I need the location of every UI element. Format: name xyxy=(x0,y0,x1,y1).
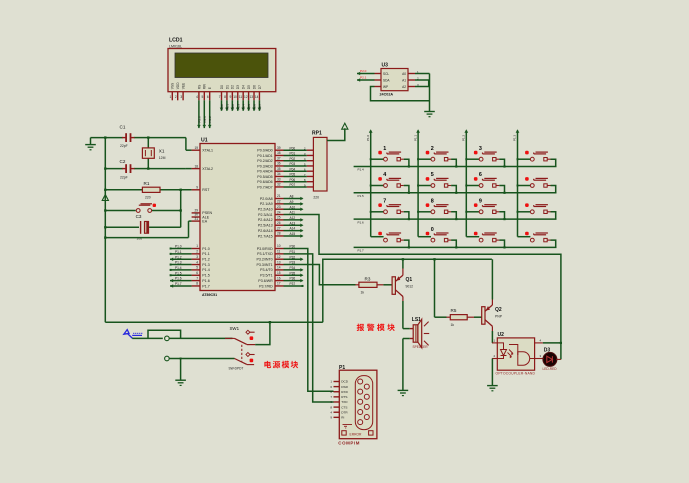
keypad column wire P1.3 xyxy=(517,131,519,237)
svg-text:P2.3/A11: P2.3/A11 xyxy=(258,213,273,217)
svg-text:P02: P02 xyxy=(231,104,235,110)
svg-text:1: 1 xyxy=(170,95,172,99)
svg-text:7: 7 xyxy=(219,95,221,99)
svg-text:34: 34 xyxy=(277,172,281,176)
svg-text:P1.5: P1.5 xyxy=(202,274,209,278)
resistor R5 xyxy=(434,259,436,317)
battery probe (blue) xyxy=(124,330,129,335)
key button r1c2 '2' xyxy=(418,158,431,160)
svg-text:SW-DPDT: SW-DPDT xyxy=(229,367,244,371)
svg-text:P1.0: P1.0 xyxy=(175,245,182,249)
U1 right pins P2.0-P2.7 net arrows xyxy=(275,198,284,200)
svg-text:26: 26 xyxy=(277,221,281,225)
svg-text:P3.2/INT0: P3.2/INT0 xyxy=(257,258,273,262)
svg-text:5: 5 xyxy=(431,172,434,178)
svg-text:14: 14 xyxy=(255,95,259,99)
svg-text:EA: EA xyxy=(202,219,207,223)
svg-text:P01: P01 xyxy=(225,104,229,110)
capacitor C2 xyxy=(122,168,126,170)
svg-text:P03: P03 xyxy=(236,104,240,110)
wire P2.3 to optocoupler line xyxy=(284,215,561,360)
wire Q1 emitter to speaker pin1 xyxy=(402,301,404,329)
svg-text:P0.6/AD6: P0.6/AD6 xyxy=(257,180,272,184)
svg-text:8: 8 xyxy=(224,95,226,99)
svg-text:LED-RED: LED-RED xyxy=(543,367,558,371)
svg-text:220: 220 xyxy=(313,196,319,200)
svg-text:23: 23 xyxy=(277,205,281,209)
wire P3.3 to R3 xyxy=(284,265,356,285)
svg-text:P1.3: P1.3 xyxy=(175,261,182,265)
svg-text:U2: U2 xyxy=(498,332,505,338)
svg-text:9: 9 xyxy=(196,186,198,190)
svg-text:D1: D1 xyxy=(225,85,229,89)
svg-text:A1: A1 xyxy=(402,78,406,82)
svg-text:8: 8 xyxy=(431,199,434,205)
ground (speaker) xyxy=(398,389,409,391)
svg-text:8: 8 xyxy=(196,282,198,286)
RP1 power arrow xyxy=(327,128,345,140)
svg-text:P2.7/A15: P2.7/A15 xyxy=(258,234,273,238)
key button r2c3 '6' xyxy=(466,185,479,187)
svg-text:P0.5/AD5: P0.5/AD5 xyxy=(257,175,272,179)
ground (U3) xyxy=(424,111,435,113)
svg-text:17: 17 xyxy=(277,282,281,286)
key button r4c1 xyxy=(384,238,388,242)
svg-text:220: 220 xyxy=(145,196,151,200)
U1 left pins PSEN ALE EA xyxy=(192,212,200,214)
crystal X1 xyxy=(147,138,149,148)
svg-text:P2.2/A10: P2.2/A10 xyxy=(258,208,273,212)
svg-text:A8: A8 xyxy=(290,195,294,199)
svg-text:P1.4: P1.4 xyxy=(202,268,209,272)
svg-text:A12: A12 xyxy=(290,216,296,220)
svg-text:6: 6 xyxy=(479,172,482,178)
svg-text:D4: D4 xyxy=(242,85,246,89)
wire lower circle / ground branch xyxy=(169,358,234,360)
svg-text:P2.2: P2.2 xyxy=(208,116,212,123)
svg-text:24C02A: 24C02A xyxy=(380,93,394,97)
U1 left pins XTAL1 XTAL2 RST xyxy=(192,149,200,151)
svg-text:7: 7 xyxy=(383,199,386,205)
svg-text:1: 1 xyxy=(383,146,386,152)
svg-text:C1: C1 xyxy=(120,125,126,130)
svg-text:15: 15 xyxy=(277,271,281,275)
svg-text:P2.0: P2.0 xyxy=(197,116,201,123)
svg-text:2: 2 xyxy=(175,95,177,99)
svg-text:12M: 12M xyxy=(159,156,166,160)
keypad row wire P1.5 xyxy=(354,192,557,194)
transistor Q2 (PNP) xyxy=(482,307,485,325)
svg-text:6: 6 xyxy=(207,95,209,99)
svg-text:SCL: SCL xyxy=(383,72,389,76)
svg-text:12: 12 xyxy=(244,95,248,99)
wire battery to switch (hop) xyxy=(132,337,163,339)
svg-text:27: 27 xyxy=(277,226,281,230)
svg-text:19: 19 xyxy=(194,146,198,150)
svg-text:A14: A14 xyxy=(290,227,296,231)
svg-text:A9: A9 xyxy=(290,200,294,204)
svg-text:18: 18 xyxy=(194,164,198,168)
svg-text:P1.7: P1.7 xyxy=(202,284,209,288)
svg-text:P00: P00 xyxy=(220,104,224,110)
svg-text:U3: U3 xyxy=(382,63,389,69)
svg-text:32: 32 xyxy=(277,183,281,187)
svg-text:P2.0/A8: P2.0/A8 xyxy=(260,197,273,201)
svg-text:TXD: TXD xyxy=(341,400,348,404)
reset button red indicator xyxy=(153,204,156,207)
wire P3.0 to COMPIM RXD xyxy=(284,249,334,392)
LCD data wires D0-D7 (net arrows) xyxy=(221,100,223,111)
svg-text:P1.0: P1.0 xyxy=(366,134,370,141)
svg-text:P3.7/RD: P3.7/RD xyxy=(259,284,273,288)
svg-text:0: 0 xyxy=(431,227,434,233)
svg-text:WP: WP xyxy=(383,85,388,89)
svg-text:P3.6/WR: P3.6/WR xyxy=(258,279,273,283)
svg-text:P3.4/T0: P3.4/T0 xyxy=(260,268,273,272)
svg-text:DCD: DCD xyxy=(341,380,348,384)
svg-text:4: 4 xyxy=(196,95,198,99)
svg-text:5: 5 xyxy=(202,95,204,99)
svg-text:16: 16 xyxy=(277,276,281,280)
svg-text:14: 14 xyxy=(277,266,281,270)
wire C1 row xyxy=(91,137,123,139)
svg-text:DTR: DTR xyxy=(341,410,348,414)
resistor R1 + RST row wire xyxy=(105,189,142,191)
svg-text:D6: D6 xyxy=(252,85,256,89)
key button r3c2 '8' xyxy=(418,211,431,213)
svg-text:D5: D5 xyxy=(247,85,251,89)
svg-text:P3.1/TXD: P3.1/TXD xyxy=(257,252,273,256)
svg-text:13: 13 xyxy=(277,260,281,264)
svg-text:P0.3/AD3: P0.3/AD3 xyxy=(257,164,272,168)
svg-text:1k: 1k xyxy=(451,323,455,327)
svg-text:P2.1: P2.1 xyxy=(360,76,367,80)
svg-text:P1.2: P1.2 xyxy=(175,255,182,259)
svg-text:Q1: Q1 xyxy=(406,277,413,283)
svg-text:RW: RW xyxy=(203,84,207,89)
transistor Q1 (PNP 9012) xyxy=(392,277,395,295)
svg-text:12: 12 xyxy=(277,255,281,259)
svg-text:P00: P00 xyxy=(290,146,296,150)
svg-text:P2.1/A9: P2.1/A9 xyxy=(260,202,273,206)
svg-text:AT89C51: AT89C51 xyxy=(202,293,217,297)
svg-text:XTAL1: XTAL1 xyxy=(202,149,213,153)
svg-text:P02: P02 xyxy=(290,157,296,161)
U3 WP loop wire xyxy=(371,87,430,101)
capacitor C1 xyxy=(122,137,126,139)
keypad row wire P1.7 xyxy=(354,246,557,248)
key button r4c2 '0' xyxy=(431,238,435,242)
svg-text:SDA: SDA xyxy=(383,78,390,82)
svg-text:11: 11 xyxy=(277,250,281,254)
svg-text:P2.5/A13: P2.5/A13 xyxy=(258,224,273,228)
svg-text:CTS: CTS xyxy=(341,405,347,409)
svg-text:P3.0/RXD: P3.0/RXD xyxy=(257,247,273,251)
svg-text:RXD: RXD xyxy=(341,390,348,394)
power +5V arrow on rail xyxy=(102,195,108,201)
svg-text:31: 31 xyxy=(194,217,198,221)
svg-text:P1.1: P1.1 xyxy=(175,250,182,254)
svg-text:R1: R1 xyxy=(144,181,150,186)
COMPIM shell ground mark xyxy=(343,424,349,426)
svg-text:PNP: PNP xyxy=(495,314,503,318)
svg-text:D7: D7 xyxy=(258,85,262,89)
ground (optocoupler) xyxy=(487,385,498,387)
svg-text:2: 2 xyxy=(196,250,198,254)
svg-text:X1: X1 xyxy=(159,148,165,153)
svg-text:A15: A15 xyxy=(290,232,296,236)
key button r3c3 '9' xyxy=(466,211,479,213)
wire circle to SW1 pole xyxy=(169,337,232,339)
svg-text:A2: A2 xyxy=(402,85,406,89)
svg-text:P2.6/A14: P2.6/A14 xyxy=(258,229,273,233)
svg-text:SW1: SW1 xyxy=(230,326,240,331)
svg-text:P2.0: P2.0 xyxy=(360,69,367,73)
keypad column wire P1.1 xyxy=(417,131,419,237)
svg-text:P1.5: P1.5 xyxy=(358,194,365,198)
svg-text:6: 6 xyxy=(196,271,198,275)
key button r4c3 xyxy=(479,238,483,242)
U1 left pins P1.0-P1.7 with net labels xyxy=(192,248,200,250)
svg-text:28: 28 xyxy=(277,232,281,236)
keypad column wire P1.0 xyxy=(370,131,372,237)
svg-text:P1.2: P1.2 xyxy=(462,134,466,141)
svg-text:5: 5 xyxy=(196,266,198,270)
svg-text:1: 1 xyxy=(196,244,198,248)
wire reset-net vertical xyxy=(180,190,182,228)
svg-text:P1.7: P1.7 xyxy=(358,249,365,253)
wire speaker pin2 to ground xyxy=(403,338,410,340)
key button r3c1 '7' xyxy=(371,211,384,213)
svg-text:13: 13 xyxy=(249,95,253,99)
svg-text:P3.3/INT1: P3.3/INT1 xyxy=(257,263,273,267)
ground (power module) xyxy=(175,379,186,381)
COMPIM DB9 shape xyxy=(355,376,372,430)
svg-text:3: 3 xyxy=(479,146,482,152)
U3 wires to MCU (net arrows) xyxy=(357,73,375,75)
svg-text:VEE: VEE xyxy=(182,83,186,89)
svg-text:P1.5: P1.5 xyxy=(175,271,182,275)
svg-text:E: E xyxy=(208,87,212,89)
wire rail to alarm VCC line xyxy=(323,259,492,322)
svg-text:A13: A13 xyxy=(290,221,296,225)
LCD pin stubs + numbers xyxy=(171,92,173,101)
wire SW1 output to rail xyxy=(247,344,255,346)
key button r2c4 xyxy=(518,185,531,187)
keypad row wire P1.6 xyxy=(354,218,557,220)
svg-text:P1.6: P1.6 xyxy=(202,279,209,283)
svg-text:36: 36 xyxy=(277,162,281,166)
svg-text:VDD: VDD xyxy=(176,82,180,89)
U2 internal LED + gate xyxy=(497,343,503,350)
svg-text:P0.1/AD1: P0.1/AD1 xyxy=(257,154,272,158)
svg-text:RI: RI xyxy=(341,416,344,420)
key button r2c2 '5' xyxy=(418,185,431,187)
svg-text:3: 3 xyxy=(180,95,182,99)
U3 right-side wires to ground xyxy=(415,73,430,75)
svg-text:P0.4/AD4: P0.4/AD4 xyxy=(257,170,272,174)
svg-text:P1.6: P1.6 xyxy=(175,277,182,281)
svg-text:COMPIM: COMPIM xyxy=(338,441,360,446)
svg-text:P1.4: P1.4 xyxy=(358,168,365,172)
svg-text:P04: P04 xyxy=(290,167,296,171)
svg-text:35: 35 xyxy=(277,167,281,171)
svg-text:P05: P05 xyxy=(247,104,251,110)
key button r4c4 xyxy=(530,238,534,242)
switch SW1 contact circles xyxy=(165,336,170,341)
svg-text:P1.1: P1.1 xyxy=(413,134,417,141)
svg-text:OPTOCOUPLER-NAND: OPTOCOUPLER-NAND xyxy=(496,372,536,376)
svg-text:3: 3 xyxy=(196,255,198,259)
svg-text:P1.0: P1.0 xyxy=(202,247,209,251)
svg-text:D0: D0 xyxy=(220,85,224,89)
key button r1c4 xyxy=(518,158,531,160)
svg-text:P0.7/AD7: P0.7/AD7 xyxy=(257,185,272,189)
wire Q2 collector to U2 xyxy=(491,331,493,343)
COMPIM error squares xyxy=(342,431,346,435)
svg-text:22: 22 xyxy=(277,200,281,204)
key button r1c1 '1' xyxy=(371,158,384,160)
svg-text:A10: A10 xyxy=(290,205,296,209)
svg-text:XTAL2: XTAL2 xyxy=(202,167,213,171)
svg-text:P1.3: P1.3 xyxy=(513,134,517,141)
svg-text:P05: P05 xyxy=(290,173,296,177)
svg-text:10: 10 xyxy=(233,95,237,99)
label alarm module (Chinese) xyxy=(357,324,365,331)
svg-text:P1.3: P1.3 xyxy=(202,263,209,267)
svg-text:P1.2: P1.2 xyxy=(202,258,209,262)
wire U2 pin2 to ground xyxy=(491,359,493,386)
svg-text:4: 4 xyxy=(196,260,198,264)
svg-text:P1.1: P1.1 xyxy=(202,252,209,256)
svg-text:DSR: DSR xyxy=(341,385,348,389)
svg-text:P01: P01 xyxy=(290,152,296,156)
wire power rail bottom xyxy=(105,321,322,323)
svg-text:R5: R5 xyxy=(451,308,457,313)
key button r1c3 '3' xyxy=(466,158,479,160)
wire U2 pin4 to LED net xyxy=(543,342,561,344)
svg-text:22pF: 22pF xyxy=(120,175,128,179)
svg-text:RP1: RP1 xyxy=(312,130,322,136)
svg-text:P06: P06 xyxy=(253,104,257,110)
capacitor C3 (electrolytic) xyxy=(105,226,139,228)
svg-text:RTS: RTS xyxy=(341,395,347,399)
svg-text:RST: RST xyxy=(202,188,210,192)
wire VCC left rail xyxy=(104,138,106,323)
svg-text:D3: D3 xyxy=(236,85,240,89)
svg-text:P1.7: P1.7 xyxy=(175,282,182,286)
svg-text:A0: A0 xyxy=(402,72,406,76)
reset button xyxy=(105,210,136,212)
svg-text:38: 38 xyxy=(277,151,281,155)
U1 right pins P0.0-P0.7 wires to RP1 xyxy=(275,149,284,151)
svg-text:P3.5/T1: P3.5/T1 xyxy=(260,274,273,278)
svg-text:10: 10 xyxy=(277,244,281,248)
svg-text:P2.1: P2.1 xyxy=(203,116,207,123)
U1 right pins P3.0-P3.7 xyxy=(275,248,284,250)
svg-text:D2: D2 xyxy=(231,85,235,89)
svg-text:U1: U1 xyxy=(201,137,208,143)
svg-text:9012: 9012 xyxy=(406,284,414,288)
wire EA tie to rail xyxy=(105,237,188,239)
svg-text:37: 37 xyxy=(277,156,281,160)
svg-text:21: 21 xyxy=(277,194,281,198)
svg-text:VSS: VSS xyxy=(171,83,175,89)
svg-text:P1.4: P1.4 xyxy=(175,266,182,270)
svg-text:7: 7 xyxy=(196,276,198,280)
keypad column wire P1.2 xyxy=(465,131,467,237)
svg-text:24: 24 xyxy=(277,210,281,214)
resistor R3 xyxy=(356,284,359,286)
wire C2 row / XTAL2 xyxy=(105,168,122,170)
svg-text:P03: P03 xyxy=(290,162,296,166)
LCD control wires to P2.0-P2.2 (net arrows) xyxy=(198,100,200,128)
ground (crystal/C1 top-left) xyxy=(90,138,92,145)
svg-text:9: 9 xyxy=(479,199,482,205)
svg-text:LCD1: LCD1 xyxy=(169,38,183,44)
svg-text:P2.4/A12: P2.4/A12 xyxy=(258,218,273,222)
svg-text:33: 33 xyxy=(277,177,281,181)
svg-text:P07: P07 xyxy=(258,104,262,110)
svg-text:P06: P06 xyxy=(290,178,296,182)
svg-text:11: 11 xyxy=(239,95,243,99)
svg-text:P04: P04 xyxy=(242,104,246,110)
svg-text:22pF: 22pF xyxy=(120,144,128,148)
svg-text:P0.2/AD2: P0.2/AD2 xyxy=(257,159,272,163)
label power module (Chinese) xyxy=(264,361,271,368)
svg-text:SPEAKER: SPEAKER xyxy=(413,345,429,349)
wire P3.1 to COMPIM TXD xyxy=(284,254,334,402)
key button r3c4 xyxy=(518,211,531,213)
key button r2c1 '4' xyxy=(371,185,384,187)
svg-text:4: 4 xyxy=(383,172,386,178)
svg-text:Q2: Q2 xyxy=(495,307,502,313)
svg-text:ERROR: ERROR xyxy=(350,432,363,436)
svg-text:P07: P07 xyxy=(290,183,296,187)
svg-text:P0.0/AD0: P0.0/AD0 xyxy=(257,149,272,153)
svg-text:C2: C2 xyxy=(120,159,126,164)
svg-text:C3: C3 xyxy=(136,214,142,219)
svg-text:2: 2 xyxy=(431,146,434,152)
svg-text:P1.6: P1.6 xyxy=(358,220,365,224)
svg-text:RS: RS xyxy=(197,85,201,89)
svg-text:LM016L: LM016L xyxy=(169,44,182,48)
svg-text:1k: 1k xyxy=(361,291,365,295)
keypad row wire P1.4 xyxy=(354,166,557,168)
svg-text:R3: R3 xyxy=(365,277,371,282)
svg-text:25: 25 xyxy=(277,216,281,220)
svg-text:39: 39 xyxy=(277,146,281,150)
svg-text:9: 9 xyxy=(230,95,232,99)
